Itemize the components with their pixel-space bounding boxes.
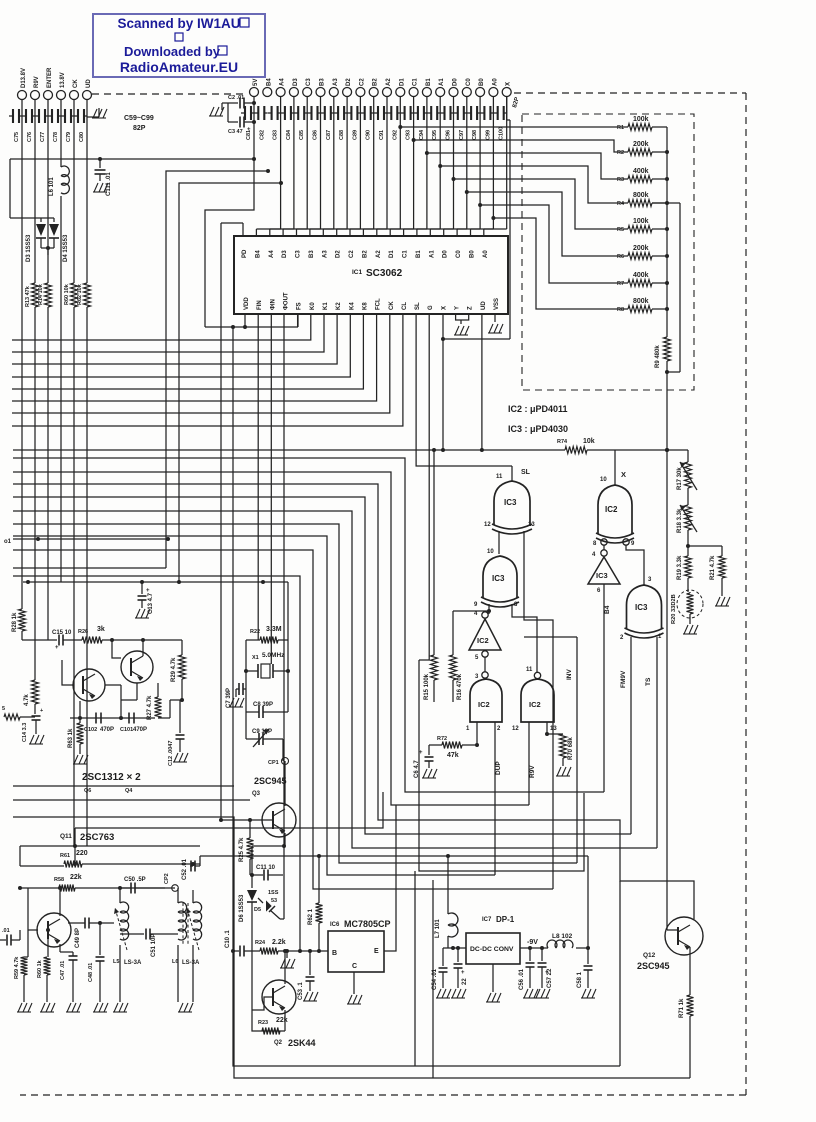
wire ladder feed [478,203,628,283]
wire [492,964,494,992]
svg-text:2SK44: 2SK44 [288,1038,316,1048]
inductor L6 101 [49,166,69,196]
svg-text:Q4: Q4 [125,788,133,794]
svg-text:D1: D1 [399,78,405,86]
svg-text:MC7805CP: MC7805CP [344,919,391,929]
capacitor C11 10 [250,865,283,881]
svg-text:82P: 82P [133,125,146,132]
svg-text:C81: C81 [246,130,252,140]
note IC2 uPD4011 [508,404,568,414]
wire FS line [297,314,299,327]
svg-text:B1: B1 [426,78,432,86]
resistor R71 1k [679,995,694,1018]
wire YZ [456,314,469,324]
ground C47 [66,1003,81,1012]
svg-text:B4: B4 [266,78,272,86]
capacitor C102 470P [84,713,114,734]
pin label SL [415,302,421,310]
pin label UD [481,301,487,310]
pin label PD [242,249,248,258]
pin label CK [389,301,395,310]
svg-text:C75: C75 [14,132,20,142]
wire [252,951,262,1031]
svg-text:100k: 100k [633,116,649,123]
svg-text:A2: A2 [386,78,392,86]
wire [614,450,616,485]
svg-text:C50 .5P: C50 .5P [124,877,146,883]
wire TS [645,637,657,848]
svg-text:.01: .01 [2,928,10,934]
svg-text:K8: K8 [362,302,368,310]
svg-text:DC-DC CONV: DC-DC CONV [470,946,514,953]
wire FIN line [257,314,259,640]
wire [471,96,494,236]
wire [652,282,667,284]
resistor R61 220 [20,850,200,868]
svg-text:470P: 470P [133,727,147,733]
wire ladder rail [665,127,669,311]
svg-text:K2: K2 [336,302,342,310]
svg-text:VSS: VSS [494,298,500,310]
resistor R3 400k [617,168,652,183]
pin label D2 [336,250,342,258]
ground C57 [535,989,550,998]
resistor R21 4.7k [710,555,726,580]
wire rail [667,450,671,930]
svg-text:13: 13 [550,726,557,732]
svg-text:K4: K4 [349,302,355,310]
svg-text:11: 11 [496,474,503,480]
svg-text:DP-1: DP-1 [496,915,515,924]
capacitor C78 [48,109,61,142]
capacitor C55 22 [454,946,469,988]
svg-text:SC3062: SC3062 [366,268,403,279]
connector B1 [422,78,432,97]
wire [665,361,669,374]
dashed box resistor ladder [522,114,694,390]
wire [363,96,387,236]
pin label A1 [429,250,435,258]
pin label ΦOUT [284,292,290,310]
wire [498,531,500,554]
wire [87,108,99,117]
wire [475,722,479,747]
connector D0 [449,78,459,97]
connector ENTER [44,67,54,100]
svg-text:+: + [146,588,150,594]
IC U1 SC3062 box [234,236,508,314]
svg-text:C102: C102 [84,727,97,733]
svg-text:R27 4.7k: R27 4.7k [147,695,153,720]
svg-text:FM9V: FM9V [620,670,627,688]
svg-text:Q3: Q3 [252,791,261,797]
pin label VDD [244,297,250,310]
svg-text:C53 .1: C53 .1 [298,982,304,1000]
svg-text:C86: C86 [313,130,319,140]
wire [22,639,48,641]
svg-text:X: X [506,82,512,86]
connector UD [83,79,93,100]
pin 8 [514,602,518,608]
svg-text:R62 1: R62 1 [308,908,314,925]
capacitor C79 [61,109,74,142]
svg-text:R74: R74 [557,439,568,445]
wire [377,96,401,236]
svg-text:R13 47k: R13 47k [25,285,31,307]
capacitor C54 .01 [432,948,448,990]
svg-text:C3 47: C3 47 [228,129,243,135]
svg-text:100k: 100k [633,218,649,225]
svg-text:5V: 5V [253,79,259,86]
pin label K4 [349,302,355,310]
svg-text:2SC945: 2SC945 [637,961,670,971]
resistor R72 47k [437,736,477,759]
wire [689,947,691,995]
svg-text:C3: C3 [296,250,302,258]
resistor R19 3.3k [677,555,692,580]
svg-text:3.3M: 3.3M [266,626,282,633]
svg-text:Q12: Q12 [643,952,656,959]
wire [350,96,374,236]
svg-text:PD: PD [242,249,248,258]
wire [102,640,121,658]
wire [283,96,307,236]
diode D3 1SS53 [26,224,46,262]
pin 2 [497,726,501,732]
wire [297,96,321,236]
wire bus line [12,314,311,340]
svg-text:Downloaded by: Downloaded by [124,44,221,59]
wire bus U1 B4 [13,458,604,792]
wire [284,761,286,806]
wire [429,744,442,746]
svg-text:C77: C77 [40,132,46,142]
resistor small 4.7k [24,680,39,706]
svg-text:SL: SL [415,302,421,310]
capacitor edge C46 [0,928,20,946]
wire bus U9 [13,576,302,953]
svg-text:13: 13 [528,522,535,528]
wire [587,856,589,948]
wire ladder feed D1 [398,125,628,129]
capacitor C12 .0047 [168,700,185,766]
transformer L5b [172,888,202,966]
pin label X [441,306,447,310]
capacitor C86 [308,106,321,140]
svg-text:D1: D1 [389,250,395,258]
wire bus U7 DUP [13,536,495,875]
svg-text:C92: C92 [392,130,398,140]
wire [652,228,667,230]
svg-text:C96: C96 [446,130,452,140]
svg-text:IC3: IC3 [504,498,517,507]
svg-text:+: + [55,645,59,651]
wire bus U2 R9V [13,472,529,805]
capacitor C83 [268,106,281,140]
svg-text:FCL: FCL [376,298,382,310]
pin label VSS [494,298,500,310]
resistor R58 22k [18,874,175,892]
svg-text:Y: Y [455,306,461,310]
capacitor C84 [281,106,294,140]
wire 13.8V line [60,99,62,582]
transistor Q12 2SC945 [665,917,703,955]
svg-text:C8 39P: C8 39P [253,702,273,708]
wire R16 branch [453,610,489,612]
resistor R23 22k [258,1017,288,1035]
svg-text:C100: C100 [499,127,505,140]
wire [13,799,250,801]
wire [13,567,166,569]
inductor L5 [113,888,142,966]
wire G line [419,314,429,660]
wire [652,308,667,310]
wire ladder feed [425,151,628,179]
svg-text:2SC945: 2SC945 [254,776,287,786]
capacitor C47 .01 [60,944,78,1002]
wire INV [566,637,577,863]
svg-text:R2: R2 [617,150,624,156]
ground C56 [523,989,538,998]
wire [444,96,467,236]
connector X [502,82,512,97]
svg-text:IC2 : μPD4011: IC2 : μPD4011 [508,404,568,414]
pin label A0 [483,250,489,258]
wire [244,640,290,712]
svg-text:B1: B1 [416,250,422,258]
capacitor C85 [294,106,307,140]
pin label B0 [470,250,476,258]
ground zener [683,625,698,634]
wire phase line [4,537,170,545]
wire [414,871,416,1066]
svg-text:B2: B2 [373,78,379,86]
resistor R15 100k [424,448,438,702]
pin label CL [402,302,408,310]
capacitor C90 [361,106,374,140]
svg-text:C88: C88 [339,130,345,140]
pin 10 [600,470,626,483]
svg-text:CL: CL [402,302,408,310]
svg-text:D0: D0 [453,78,459,86]
wire R9V line [34,99,36,680]
dashed border top-right segment [514,92,746,94]
wire [158,700,170,718]
svg-text:12: 12 [512,726,519,732]
svg-text:E: E [374,948,379,955]
svg-text:IC3: IC3 [596,571,608,580]
svg-text:SL: SL [521,469,531,476]
svg-text:R60 1k: R60 1k [37,959,43,978]
capacitor C91 [374,106,387,140]
wire X net [13,449,565,451]
resistor R26 3k [78,626,105,644]
wire [687,488,689,505]
pin 10 [487,549,494,555]
svg-text:R28 1k: R28 1k [12,612,18,632]
capacitor C9 18P trimmer [246,712,283,747]
wire ΦIN line [270,314,272,664]
wire [287,582,289,640]
connector D1 [396,78,406,97]
svg-text:5.0MHz: 5.0MHz [262,652,285,659]
label Q2 2SK44 [274,1038,316,1048]
svg-text:R4: R4 [617,201,625,207]
svg-text:D3: D3 [293,78,299,86]
wire [390,96,413,236]
pin 12 [484,522,491,528]
svg-text:L6 101: L6 101 [49,177,55,196]
gate IC3b NOR [481,556,519,607]
label Q11 2SC763 [60,832,114,843]
svg-text:C85: C85 [299,130,305,140]
capacitor C8 39P [246,689,288,718]
svg-text:R1: R1 [617,125,624,131]
capacitor C50 .5P [118,877,165,894]
resistor R60 1k [37,944,51,1002]
svg-text:CK: CK [73,79,79,88]
svg-text:C0: C0 [466,78,472,86]
resistor R6 200k [617,245,652,260]
svg-text:22k: 22k [276,1017,288,1024]
stamp box Scanned by IW1AU / RadioAmateur.EU [93,14,265,77]
capacitor C111 .01 [95,159,113,196]
input bubbles [593,539,635,547]
svg-text:CP2: CP2 [164,873,170,884]
svg-text:ENTER: ENTER [47,67,53,88]
svg-text:10: 10 [487,549,494,555]
wire [46,928,50,944]
wire [70,701,155,720]
svg-text:C93: C93 [406,130,412,140]
svg-text:C3: C3 [306,78,312,86]
svg-text:C2 .01: C2 .01 [228,95,244,101]
gate IC3a NOR [492,481,532,534]
svg-text:X: X [621,470,626,479]
resistor R17 30k variable [677,462,697,490]
wire bus line [12,314,403,426]
svg-text:C84: C84 [286,129,292,140]
ground C48 [93,1003,108,1012]
resistor R60 10k [64,283,78,307]
svg-text:C11 10: C11 10 [256,865,276,871]
svg-text:C47 .01: C47 .01 [60,961,66,980]
svg-text:B4: B4 [604,605,611,614]
svg-text:4.7k: 4.7k [24,694,30,706]
svg-text:R6: R6 [617,254,624,260]
svg-text:R5: R5 [617,227,624,233]
pin label A3 [322,250,328,258]
capacitor C58 1 [577,948,593,988]
svg-text:C82: C82 [259,130,265,140]
svg-text:R16 470k: R16 470k [457,673,463,700]
transistor Q2 2SK44 [262,980,296,1014]
connector D2 [343,78,353,97]
svg-text:L7 101: L7 101 [435,919,441,938]
svg-text:400k: 400k [633,272,649,279]
inverter IC3c [588,550,620,594]
svg-text:C91: C91 [379,130,385,140]
svg-text:A3: A3 [322,250,328,258]
capacitor C89 [347,106,360,140]
ground C53 [303,992,318,1001]
pin 2 [620,635,624,641]
wire [75,792,383,828]
dashed border right side [745,93,747,1095]
transistor Q4 2SC1312 [73,669,105,701]
svg-text:K1: K1 [323,302,329,310]
connector CK [70,79,80,100]
label Q12 2SC945 [637,952,670,971]
resistor R63 1k [68,718,84,754]
capacitor C2 .01 [222,95,254,109]
wire [488,611,490,614]
svg-text:C52 .01: C52 .01 [182,858,188,880]
connector B2 [369,78,379,97]
svg-text:R8: R8 [617,307,624,313]
wire [105,683,137,718]
connector B3 [316,78,326,97]
svg-text:C2: C2 [349,250,355,258]
wire [686,530,690,556]
wire bus line [12,314,350,377]
wire [687,578,689,592]
wire [404,96,427,236]
connector R9V [31,76,41,99]
svg-text:R9 480k: R9 480k [655,345,661,368]
connector 13.8V [57,72,67,99]
pin label K8 [362,302,368,310]
svg-text:D2: D2 [336,250,342,258]
capacitor C99 [480,106,493,140]
wire ENTER line [47,99,49,640]
wire [457,96,480,236]
ground C55 [451,989,466,998]
svg-text:IC2: IC2 [478,700,490,709]
svg-text:IC2: IC2 [477,636,489,645]
wire UD pin [480,314,484,452]
label Q4 [125,788,133,794]
wire [235,689,237,697]
svg-text:R29 4.7k: R29 4.7k [171,657,177,682]
wire [252,833,285,888]
svg-text:B2: B2 [362,250,368,258]
wire E pin [384,805,396,951]
resistor R28 1k [12,609,26,640]
svg-text:C101: C101 [120,727,133,733]
wire [524,636,577,638]
wire bus line [12,314,337,364]
transistor Q10 2SC763 [37,913,71,947]
capacitor C82 [254,106,267,140]
capacitor C93 [401,106,414,140]
resistor R18 3.3k variable [677,505,697,533]
svg-text:D6 1SS53: D6 1SS53 [239,894,245,922]
resistor R14 10k [38,283,52,307]
svg-text:C: C [352,963,357,970]
svg-text:R7: R7 [617,281,624,287]
wire bus U8 [13,550,553,889]
pin label K1 [323,302,329,310]
pin 13 [528,522,535,528]
capacitor C95 [427,106,440,140]
wire [587,448,688,452]
capacitor C52 .01 [182,858,195,880]
svg-text:C10 .1: C10 .1 [225,930,231,948]
capacitor C98 [467,106,480,140]
svg-text:1SS: 1SS [268,890,279,896]
svg-text:IC6: IC6 [330,922,340,928]
